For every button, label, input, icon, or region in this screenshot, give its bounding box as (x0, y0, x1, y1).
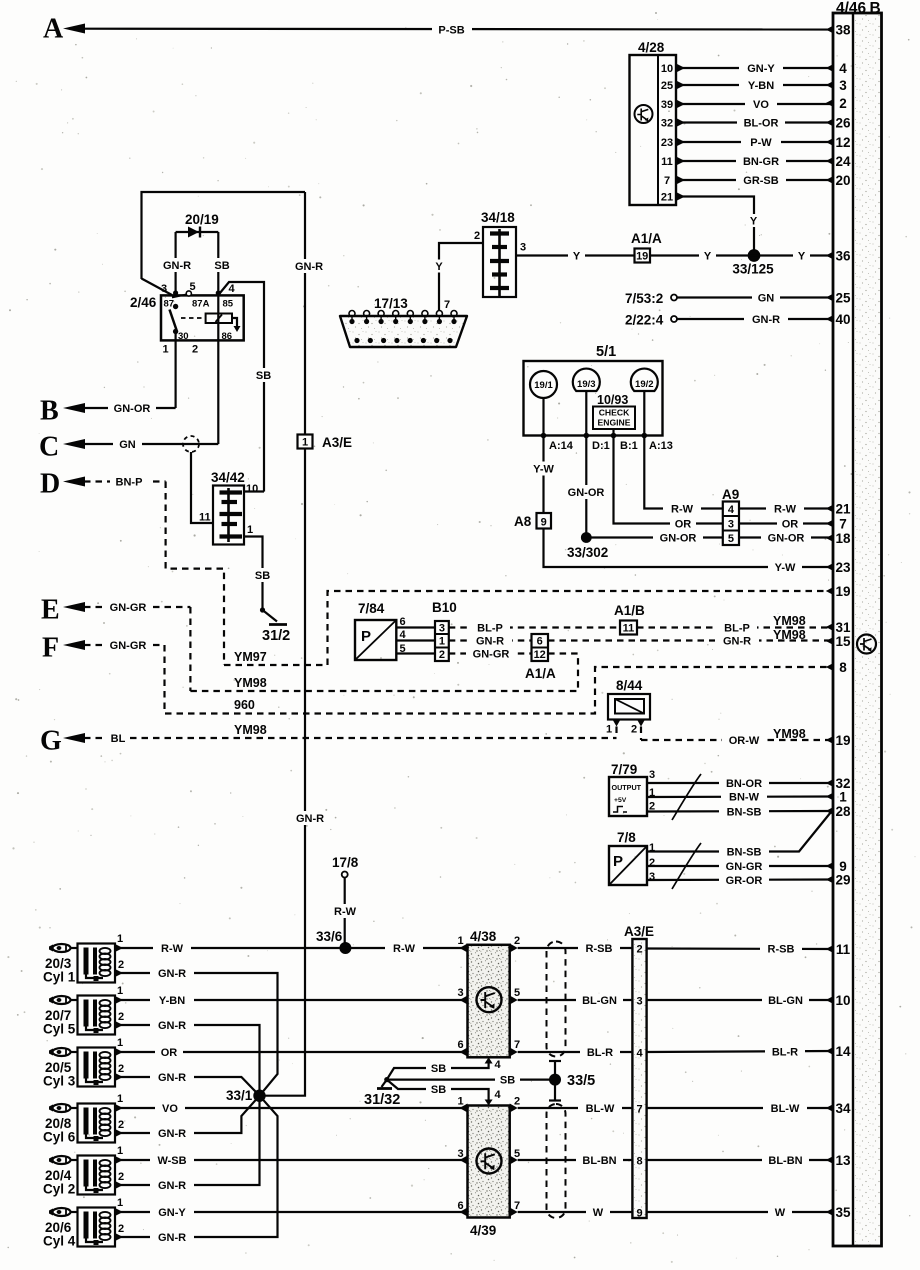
svg-text:Cyl 3: Cyl 3 (43, 1074, 76, 1089)
wire 7/79:2 BN-SB to pin 28 (647, 805, 833, 819)
svg-text:SB: SB (214, 260, 229, 272)
wire 4/38:2 R-SB to A3/E:2 (518, 942, 633, 956)
svg-text:38: 38 (835, 23, 851, 38)
wire 5/1 A:14 Y-W through A8:9 to pin 23 (527, 436, 833, 575)
svg-text:4/39: 4/39 (470, 1223, 496, 1238)
svg-text:BL-P: BL-P (724, 623, 750, 635)
svg-text:3: 3 (839, 78, 847, 93)
svg-text:BN-OR: BN-OR (726, 778, 762, 790)
node A arrow (43, 14, 85, 45)
svg-text:10: 10 (661, 63, 673, 75)
svg-text:YM97: YM97 (234, 650, 267, 664)
connector B10 pins 3 1 2 (432, 600, 457, 661)
svg-text:3: 3 (161, 283, 167, 295)
dashed wire E down to YM98 (189, 607, 191, 691)
ignition coil 20/7 Cyl 5 (43, 985, 124, 1037)
pin 4 (826, 61, 847, 76)
svg-text:GN-OR: GN-OR (660, 533, 697, 545)
svg-text:5: 5 (728, 533, 734, 545)
svg-text:Y: Y (750, 216, 758, 228)
terminal 7/53:2 wire GN to pin 25 (625, 291, 833, 306)
svg-text:18: 18 (835, 531, 851, 546)
svg-text:YM98: YM98 (773, 727, 806, 741)
node E arrow wire GN-GR dashed (41, 595, 190, 626)
svg-text:19/3: 19/3 (577, 379, 596, 390)
svg-text:P-SB: P-SB (438, 25, 464, 37)
svg-text:YM98: YM98 (234, 723, 267, 737)
wire relay 86 down to node C (217, 340, 219, 444)
svg-text:33/125: 33/125 (732, 262, 774, 277)
svg-text:GN-R: GN-R (158, 968, 186, 980)
wire coil3:2 GN-R to node 33/1 (115, 1071, 260, 1096)
svg-text:Y: Y (435, 261, 443, 273)
svg-text:3: 3 (458, 987, 464, 999)
svg-text:Cyl 1: Cyl 1 (43, 970, 76, 985)
svg-text:2: 2 (474, 230, 480, 242)
svg-text:21: 21 (661, 192, 673, 204)
wire A P-SB to pin 38 (84, 23, 833, 37)
cluster internal wires and pin labels (541, 391, 673, 452)
svg-text:R-W: R-W (161, 943, 184, 955)
svg-text:R-W: R-W (393, 943, 416, 955)
svg-text:GN-R: GN-R (752, 314, 780, 326)
pin 28 (826, 804, 851, 819)
svg-text:33/6: 33/6 (316, 929, 343, 944)
svg-text:1: 1 (117, 1037, 123, 1049)
pin 29 (826, 873, 851, 888)
wire 4/28:39 VO to pin 2 (676, 98, 833, 112)
svg-text:GN-R: GN-R (476, 636, 504, 648)
svg-text:SB: SB (255, 570, 270, 582)
svg-text:GN-OR: GN-OR (114, 403, 151, 415)
svg-text:34/42: 34/42 (211, 470, 245, 485)
svg-text:A1/A: A1/A (631, 231, 662, 246)
svg-text:P: P (361, 628, 371, 645)
svg-text:7: 7 (636, 1104, 642, 1116)
dashed wire B10:2 GN-GR to A1/A:12 (449, 647, 532, 661)
svg-text:Y: Y (573, 251, 581, 263)
node 33/6 (316, 929, 351, 954)
wire 5/1 D:1 GN-OR to 33/302 to A9:5 to pin 18 (562, 436, 833, 545)
svg-text:28: 28 (835, 804, 851, 819)
pin 14 (826, 1044, 851, 1059)
wire A3/E:3 BL-GN to pin 10 (647, 994, 833, 1008)
svg-text:35: 35 (835, 1205, 851, 1220)
svg-text:20: 20 (835, 173, 850, 188)
wire A3/E:2 R-SB to pin 11 (647, 942, 833, 956)
wire SB ground to 4/39:4 (387, 1080, 489, 1100)
dashed wire YM98 to A1/A:12 (190, 654, 578, 692)
svg-text:E: E (41, 595, 60, 626)
svg-text:OUTPUT: OUTPUT (612, 783, 642, 792)
svg-text:3: 3 (439, 623, 445, 635)
wire coil4:2 GN-R to node 33/1 (115, 1096, 278, 1244)
svg-text:BL: BL (111, 733, 126, 745)
svg-text:10: 10 (835, 993, 850, 1008)
dashed wire 8/44:2 OR-W to pin 19 (641, 727, 833, 747)
svg-text:25: 25 (835, 291, 851, 306)
dashed wire YM97 to pin 19 (224, 591, 833, 665)
svg-text:5: 5 (514, 987, 520, 999)
svg-text:BL-OR: BL-OR (744, 118, 779, 130)
power stage 4/39 (458, 1089, 521, 1238)
warning lamp 10/93 CHECK ENGINE (593, 393, 635, 429)
svg-text:GN-GR: GN-GR (110, 640, 147, 652)
svg-text:ENGINE: ENGINE (598, 418, 631, 428)
dashed wire B10:1 GN-R via A1/A:6 to pin 15 (449, 628, 833, 648)
svg-text:A3/E: A3/E (624, 924, 654, 939)
svg-text:A1/B: A1/B (614, 603, 645, 618)
svg-text:11: 11 (836, 942, 851, 957)
svg-text:GN: GN (119, 439, 136, 451)
ignition coil unit 34/18 (474, 210, 526, 297)
svg-text:1: 1 (117, 1145, 123, 1157)
wire 4/28:10 GN-Y to pin 4 (676, 62, 833, 76)
wire 4/39:5 BL-BN to A3/E:8 (518, 1154, 633, 1168)
wire coil5:1 Y-BN to 4/38:3 (115, 994, 468, 1008)
wire 7/8:1 BN-SB diagonal to pin 28 (647, 812, 831, 859)
svg-text:BN-SB: BN-SB (727, 847, 762, 859)
svg-text:2/46: 2/46 (130, 295, 157, 310)
pin 10 (826, 993, 851, 1008)
dashed wire F 960 to pin 8 (165, 645, 834, 714)
pin 15 (826, 634, 851, 649)
svg-text:23: 23 (835, 560, 851, 575)
svg-text:2: 2 (118, 1063, 124, 1075)
svg-text:2: 2 (514, 1096, 520, 1108)
svg-text:33/1: 33/1 (226, 1088, 253, 1103)
wire coil1:2 GN-R to node 33/1 (115, 967, 278, 1096)
svg-text:A:13: A:13 (649, 440, 673, 452)
svg-text:A3/E: A3/E (322, 435, 352, 450)
svg-text:F: F (42, 633, 59, 664)
svg-text:2: 2 (514, 935, 520, 947)
svg-text:R-SB: R-SB (586, 943, 613, 955)
pin 23 (826, 560, 851, 575)
svg-text:SB: SB (431, 1084, 446, 1096)
svg-text:P-W: P-W (750, 137, 772, 149)
wire 7/8:2 GN-GR to pin 9 (647, 860, 833, 874)
svg-text:7: 7 (664, 175, 670, 187)
wire 4/28:23 P-W to pin 12 (676, 136, 833, 150)
svg-text:32: 32 (661, 118, 673, 130)
svg-text:R-SB: R-SB (768, 944, 795, 956)
connector A1/B pin 11 (614, 603, 645, 635)
svg-text:4: 4 (400, 629, 407, 641)
svg-text:15: 15 (835, 634, 851, 649)
svg-text:P: P (613, 853, 623, 870)
connector A8 pin 9 (514, 513, 551, 529)
svg-text:960: 960 (234, 698, 255, 712)
svg-text:4: 4 (495, 1059, 502, 1071)
svg-text:20/19: 20/19 (185, 212, 219, 227)
svg-text:10: 10 (246, 483, 258, 495)
svg-text:Y-W: Y-W (533, 464, 554, 476)
wire coil1:1 R-W to 33/6 to 4/38:1 (115, 942, 468, 956)
svg-text:8/44: 8/44 (616, 678, 643, 693)
svg-text:7/84: 7/84 (358, 601, 385, 616)
svg-text:9: 9 (541, 517, 547, 529)
svg-text:GN-R: GN-R (158, 1072, 186, 1084)
pin 24 (826, 154, 851, 169)
svg-text:8: 8 (839, 660, 847, 675)
svg-text:GN-OR: GN-OR (768, 533, 805, 545)
svg-text:1: 1 (606, 724, 612, 736)
gauge 19/3 (573, 369, 600, 391)
pressure sensor 7/8 (609, 830, 655, 885)
svg-text:23: 23 (661, 137, 673, 149)
control module 4/28 (630, 40, 677, 205)
svg-text:A:14: A:14 (549, 440, 574, 452)
wire coil6:2 GN-R to node 33/1 (115, 1096, 260, 1140)
svg-text:R-W: R-W (774, 504, 797, 516)
svg-text:A9: A9 (722, 487, 739, 502)
power stage 4/38 (458, 929, 521, 1071)
svg-text:12: 12 (835, 135, 850, 150)
wire Y 34/18:3 to A1/A:19 to 33/125 to pin 36 (516, 249, 833, 263)
svg-text:1: 1 (117, 1093, 123, 1105)
connector A3/E strip (624, 924, 654, 1220)
svg-text:BL-R: BL-R (772, 1047, 798, 1059)
node 33/1 (226, 1088, 266, 1103)
svg-text:2: 2 (439, 649, 445, 661)
svg-text:1: 1 (247, 524, 253, 536)
svg-text:1: 1 (117, 933, 123, 945)
svg-text:33/302: 33/302 (567, 545, 608, 560)
svg-text:GN-R: GN-R (158, 1020, 186, 1032)
svg-text:OR: OR (161, 1047, 178, 1059)
svg-text:31/2: 31/2 (262, 628, 290, 644)
gauge 19/2 (631, 369, 658, 391)
svg-text:B: B (870, 0, 881, 17)
ground 31/32 (364, 1077, 400, 1108)
pressure sensor 7/84 (355, 601, 435, 660)
svg-text:1: 1 (117, 985, 123, 997)
svg-text:GN-GR: GN-GR (473, 649, 510, 661)
pin 1 (826, 790, 847, 805)
svg-text:BL-BN: BL-BN (582, 1155, 616, 1167)
svg-text:D:1: D:1 (592, 440, 610, 452)
pin 25 (826, 291, 851, 306)
svg-text:Cyl 2: Cyl 2 (43, 1182, 75, 1197)
svg-text:2/22:4: 2/22:4 (625, 313, 664, 328)
splice ring on wire C (183, 436, 199, 452)
svg-text:BN-SB: BN-SB (727, 807, 762, 819)
svg-text:3: 3 (636, 996, 642, 1008)
svg-text:4: 4 (495, 1089, 502, 1101)
wire 4/39:7 W to A3/E:9 (518, 1206, 633, 1220)
svg-text:2: 2 (118, 1171, 124, 1183)
pin 35 (826, 1205, 851, 1220)
diode 20/19 (158, 212, 234, 296)
svg-text:A: A (43, 14, 64, 45)
node F arrow wire GN-GR dashed (42, 633, 165, 664)
svg-text:SB: SB (500, 1075, 515, 1087)
svg-text:7: 7 (839, 517, 847, 532)
wire A3/E:9 W to pin 35 (647, 1206, 833, 1220)
svg-text:6: 6 (537, 636, 543, 648)
pin 19 lower (826, 733, 851, 748)
wire 34/42:1 SB down to ground (244, 537, 275, 611)
wire 17/8 R-W down to node 33/6 (328, 878, 362, 949)
svg-text:5/1: 5/1 (596, 344, 616, 360)
svg-text:BL-W: BL-W (771, 1103, 800, 1115)
shield capsule upper (547, 942, 566, 1057)
shift solenoid 8/44 (606, 678, 650, 740)
svg-text:B:1: B:1 (620, 440, 638, 452)
svg-text:3: 3 (520, 242, 526, 254)
pin 3 (826, 78, 847, 93)
svg-text:25: 25 (661, 80, 673, 92)
svg-text:BL-P: BL-P (477, 623, 503, 635)
wire splice down to 34/42:11 (191, 452, 213, 524)
svg-text:2: 2 (118, 1119, 124, 1131)
svg-text:14: 14 (835, 1044, 851, 1059)
wire A3/E:7 BL-W to pin 34 (647, 1102, 833, 1116)
svg-text:2: 2 (649, 857, 655, 869)
wire 4/39:2 BL-W to A3/E:7 (518, 1102, 633, 1116)
gauge 19/1 (530, 371, 557, 398)
svg-text:11: 11 (661, 156, 673, 168)
connector A3/E pin 1 (298, 435, 353, 451)
svg-text:1: 1 (117, 1197, 123, 1209)
svg-text:17/13: 17/13 (374, 296, 408, 311)
svg-text:W: W (593, 1207, 604, 1219)
connector 17/13 (340, 296, 467, 347)
svg-text:BN-P: BN-P (116, 477, 143, 489)
svg-text:B10: B10 (432, 600, 457, 615)
pin 12 (826, 135, 851, 150)
wire relay 30 down to node B (175, 340, 177, 408)
terminal 2/22:4 wire GN-R to pin 40 (625, 313, 833, 328)
harness slash 7/8 (672, 843, 701, 889)
pin 13 (826, 1153, 851, 1168)
pin 8 (826, 660, 847, 675)
svg-text:GN-R: GN-R (295, 261, 323, 273)
svg-text:GR-OR: GR-OR (726, 875, 763, 887)
svg-text:11: 11 (199, 512, 211, 524)
harness slash 7/79 (672, 774, 701, 820)
svg-text:4: 4 (728, 504, 735, 516)
svg-text:1: 1 (839, 790, 847, 805)
svg-text:C: C (39, 432, 59, 463)
node 33/302 (567, 532, 608, 560)
svg-text:Y-BN: Y-BN (748, 80, 774, 92)
svg-text:BL-W: BL-W (586, 1103, 615, 1115)
svg-text:OR-W: OR-W (729, 735, 760, 747)
ignition coil 20/8 Cyl 6 (43, 1093, 124, 1145)
svg-text:39: 39 (661, 99, 673, 111)
svg-text:7: 7 (514, 1200, 520, 1212)
svg-text:GN: GN (758, 293, 775, 305)
pin 7 (826, 517, 847, 532)
svg-text:Cyl 6: Cyl 6 (43, 1130, 76, 1145)
svg-text:4/46: 4/46 (836, 0, 867, 17)
svg-text:4: 4 (229, 283, 236, 295)
wire GN-R rail continues down to node 33/1 (260, 449, 331, 1096)
svg-text:4: 4 (636, 1048, 643, 1060)
svg-text:Y: Y (798, 251, 806, 263)
svg-text:13: 13 (835, 1153, 851, 1168)
wire coil4:1 GN-Y to 4/39:6 (115, 1206, 468, 1220)
svg-text:9: 9 (636, 1208, 642, 1220)
connector A9 pins 4 3 5 (722, 487, 739, 545)
svg-text:33/5: 33/5 (567, 1073, 595, 1089)
wire 4/38:7 BL-R to A3/E:4 (518, 1046, 633, 1060)
svg-text:86: 86 (222, 331, 233, 342)
svg-text:31: 31 (835, 620, 851, 635)
wire coil3:1 OR to 4/38:6 (115, 1046, 468, 1060)
svg-text:SB: SB (256, 370, 271, 382)
svg-text:34/18: 34/18 (481, 210, 515, 225)
wire top loop relay 87 to GN-R rail (142, 192, 306, 295)
svg-text:R-W: R-W (334, 906, 357, 918)
svg-text:GN-GR: GN-GR (110, 602, 147, 614)
pin 19 upper (826, 584, 851, 599)
terminal 17/8 (332, 855, 359, 878)
wire coil2:2 GN-R to node 33/1 (115, 1096, 260, 1192)
svg-text:W: W (775, 1207, 786, 1219)
wire 34/18:2 Y down to 17/13:7 (431, 243, 483, 311)
svg-text:W-SB: W-SB (157, 1155, 186, 1167)
svg-text:19: 19 (636, 251, 648, 263)
wire 4/38:5 BL-GN to A3/E:3 (518, 994, 633, 1008)
svg-text:85: 85 (223, 299, 234, 310)
svg-text:19: 19 (835, 733, 850, 748)
svg-text:87A: 87A (192, 299, 210, 310)
connector A1/A pin 19 (631, 231, 662, 263)
wire coil6:1 VO to 4/39:1 (115, 1102, 468, 1116)
svg-text:12: 12 (534, 649, 546, 661)
ignition coil 20/5 Cyl 3 (43, 1037, 124, 1089)
wire coil5:2 GN-R to node 33/1 (115, 1019, 260, 1096)
svg-text:5: 5 (514, 1148, 520, 1160)
svg-text:17/8: 17/8 (332, 855, 359, 870)
svg-text:2: 2 (192, 344, 198, 356)
svg-text:7: 7 (514, 1039, 520, 1051)
wire 5/1 A:13 R-W to A9:4 to pin 21 (644, 436, 833, 516)
svg-text:A1/A: A1/A (525, 666, 556, 681)
svg-text:YM98: YM98 (234, 676, 267, 690)
svg-text:Cyl 5: Cyl 5 (43, 1022, 76, 1037)
instrument cluster 5/1 (524, 344, 663, 436)
svg-text:36: 36 (835, 249, 851, 264)
svg-text:19/2: 19/2 (635, 379, 654, 390)
svg-text:A8: A8 (514, 514, 532, 529)
relay 2/46 (130, 281, 244, 356)
svg-text:2: 2 (631, 724, 637, 736)
shield capsule lower (547, 1104, 566, 1218)
svg-text:7: 7 (444, 299, 450, 311)
throttle unit 34/42 (211, 470, 258, 545)
svg-text:Y-BN: Y-BN (159, 995, 185, 1007)
node 33/125 (732, 250, 774, 277)
svg-text:VO: VO (162, 1103, 178, 1115)
svg-text:VO: VO (753, 99, 769, 111)
svg-text:2: 2 (636, 944, 642, 956)
svg-text:BN-GR: BN-GR (743, 156, 779, 168)
ignition coil 20/4 Cyl 2 (43, 1145, 124, 1197)
svg-text:2: 2 (118, 959, 124, 971)
svg-text:G: G (40, 726, 62, 757)
svg-text:8: 8 (636, 1156, 642, 1168)
wire 7/79:3 BN-OR to pin 32 (647, 777, 833, 791)
dashed wire D path to YM97 (166, 482, 224, 666)
svg-text:GN-Y: GN-Y (158, 1207, 186, 1219)
svg-text:7/53:2: 7/53:2 (625, 291, 663, 306)
ground 31/2 (260, 607, 290, 644)
svg-text:19: 19 (835, 584, 850, 599)
